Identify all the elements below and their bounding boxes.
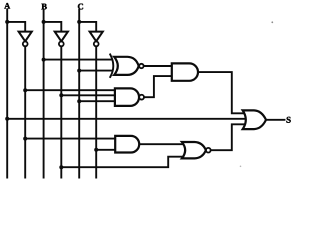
wire: C tap to XNOR input 2 (79, 70, 112, 72)
NAND output bubble (139, 95, 144, 100)
AND gate U4 (bottom left) body (115, 136, 139, 153)
node: junction C-bar / lower AND input (94, 148, 98, 152)
node: junction A branch (5, 20, 9, 24)
wire: A branch to inverter (7, 22, 25, 32)
node: junction B-bar / NOR line (59, 165, 63, 169)
scan speck (noise) bottom middle (240, 166, 242, 168)
output label S (287, 117, 291, 123)
wire: XNOR output to AND U2 input 1 (144, 65, 172, 67)
wire: B-bar tap to NOR input 2 (jog) (61, 157, 183, 168)
NAND gate (Abar,Bbar,C) body (115, 88, 139, 106)
wire: B branch to inverter (44, 22, 62, 32)
wire: lower AND output to NOR input 1 (139, 143, 183, 145)
input label A (4, 3, 10, 8)
inverter C output bubble (94, 42, 99, 47)
wire: C tap to NAND input 3 (79, 100, 116, 102)
input label C (78, 4, 83, 10)
wire: A-bar vertical rail (24, 47, 26, 178)
wire: NAND output jog to AND U2 input 2 (144, 76, 171, 97)
wire: input A vertical rail (6, 10, 8, 178)
node: junction B-bar / NAND input (59, 93, 63, 97)
node: junction B branch (42, 20, 46, 24)
XNOR output bubble (139, 64, 143, 68)
wire: C branch to inverter (79, 22, 96, 32)
inverter A output bubble (23, 42, 28, 47)
wire: B tap to XNOR input 1 (44, 59, 112, 61)
wire: C-bar tap to lower AND input 2 (96, 149, 115, 151)
wire: A-bar tap to lower AND input 1 (25, 138, 115, 140)
node: junction B / XNOR input (42, 58, 46, 62)
scan speck (noise) top right (271, 21, 273, 23)
XNOR gate (B,C) extra input arc (110, 54, 113, 77)
wire: input C vertical rail (78, 10, 80, 178)
wire: A tap long line to OR gate middle input (7, 118, 245, 120)
wire: OR output to S (266, 119, 285, 121)
inverter B output bubble (59, 42, 64, 47)
wire: B-bar vertical rail (60, 47, 62, 178)
AND gate U2 (top right) body (172, 63, 198, 80)
OR gate (final, 3-input) body (243, 110, 266, 129)
XNOR gate (B,C) body (114, 57, 139, 75)
inverter for A (triangle) (19, 32, 32, 42)
inverter for B (triangle) (55, 32, 68, 42)
node: junction A-bar / NAND input (23, 88, 27, 92)
node: junction A / long line (5, 117, 9, 121)
node: junction C branch (77, 20, 81, 24)
input label B (41, 4, 46, 10)
node: junction C / XNOR input (77, 69, 81, 73)
node: junction A-bar / lower AND input (23, 137, 27, 141)
wire: input B vertical rail (43, 10, 45, 178)
NOR output bubble (206, 148, 211, 153)
wire: NOR output jog up to OR input 3 (211, 124, 245, 150)
inverter for C (triangle) (90, 32, 103, 42)
NOR gate body (182, 142, 206, 158)
wire: C-bar vertical rail (95, 47, 97, 178)
node: junction C / NAND input (77, 99, 81, 103)
wire: A-bar tap to NAND input 1 (25, 89, 116, 91)
wire: B-bar tap to NAND input 2 (61, 94, 116, 96)
wire: AND U2 output jog down to OR input 1 (198, 72, 244, 113)
